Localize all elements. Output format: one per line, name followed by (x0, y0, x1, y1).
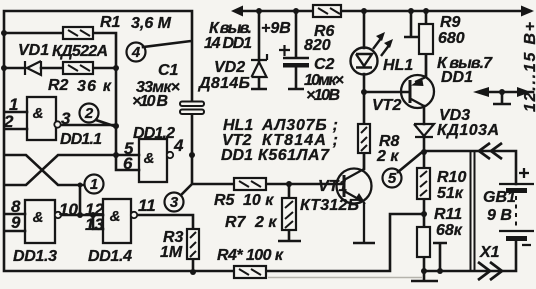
svg-text:DD1.3: DD1.3 (13, 248, 57, 265)
svg-text:51к: 51к (437, 185, 464, 202)
svg-text:DD1.2: DD1.2 (133, 125, 175, 142)
svg-text:9 В: 9 В (487, 207, 512, 224)
svg-text:1: 1 (90, 176, 98, 193)
svg-text:КД522А: КД522А (52, 43, 108, 60)
svg-text:4: 4 (173, 136, 184, 155)
svg-text:R1: R1 (100, 14, 121, 31)
svg-text:36 к: 36 к (77, 78, 112, 95)
svg-text:10 к: 10 к (243, 192, 274, 209)
svg-text:VD2: VD2 (214, 59, 245, 76)
svg-text:10: 10 (59, 200, 78, 219)
svg-text:14 DD1: 14 DD1 (204, 35, 252, 52)
svg-text:5: 5 (388, 170, 397, 187)
svg-text:×10 В: ×10 В (132, 93, 168, 110)
svg-text:VT1: VT1 (318, 178, 347, 195)
svg-text:2 к: 2 к (376, 148, 399, 165)
svg-text:&: & (110, 208, 121, 225)
svg-text:×10В: ×10В (306, 87, 340, 104)
svg-text:Д814Б: Д814Б (197, 75, 250, 92)
svg-text:R7: R7 (225, 214, 247, 231)
svg-text:R2: R2 (48, 77, 69, 94)
svg-text:DD1.4: DD1.4 (88, 248, 132, 265)
svg-text:+9В: +9В (261, 20, 291, 37)
svg-text:VD1: VD1 (18, 42, 49, 59)
svg-text:3,6 М: 3,6 М (131, 15, 172, 32)
svg-text:6: 6 (123, 154, 133, 173)
svg-text:VT2: VT2 (372, 97, 401, 114)
svg-text:GB1: GB1 (483, 189, 516, 206)
svg-text:R5: R5 (214, 192, 236, 209)
svg-text:К561ЛА7: К561ЛА7 (258, 147, 330, 164)
svg-text:3: 3 (61, 109, 71, 128)
svg-text:С1: С1 (158, 62, 179, 79)
svg-text:&: & (144, 150, 155, 167)
svg-text:2: 2 (3, 112, 14, 131)
svg-text:680: 680 (438, 30, 465, 47)
svg-text:КД103А: КД103А (437, 122, 499, 139)
svg-text:X1: X1 (479, 244, 500, 261)
svg-text:4: 4 (131, 44, 141, 61)
svg-text:R10: R10 (437, 169, 466, 186)
svg-text:DD1.1: DD1.1 (60, 131, 102, 148)
svg-text:820: 820 (304, 37, 331, 54)
svg-text:C2: C2 (314, 56, 335, 73)
svg-text:68к: 68к (436, 222, 463, 239)
svg-text:13: 13 (85, 215, 104, 234)
svg-text:HL1: HL1 (383, 57, 413, 74)
svg-text:12...15 В+: 12...15 В+ (522, 22, 536, 112)
svg-text:R4* 100 к: R4* 100 к (217, 247, 284, 264)
svg-text:DD1: DD1 (221, 147, 253, 164)
svg-text:2: 2 (84, 105, 94, 122)
svg-text:R9: R9 (440, 14, 461, 31)
svg-text:3: 3 (170, 194, 179, 211)
svg-text:&: & (33, 209, 44, 226)
svg-text:&: & (33, 105, 44, 122)
svg-text:11: 11 (138, 196, 156, 215)
svg-text:9: 9 (11, 213, 21, 232)
svg-text:R11: R11 (434, 206, 462, 223)
svg-text:1М: 1М (160, 244, 183, 261)
svg-text:КТ312Б: КТ312Б (300, 197, 359, 214)
svg-text:2 к: 2 к (254, 214, 277, 231)
svg-text:DD1: DD1 (441, 69, 473, 86)
